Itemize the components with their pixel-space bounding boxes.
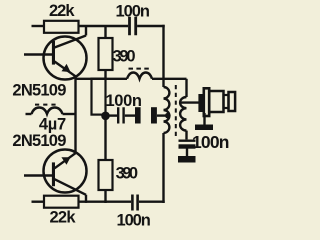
svg-text:2N5109: 2N5109 — [12, 81, 66, 99]
svg-text:22k: 22k — [50, 209, 77, 227]
svg-text:100n: 100n — [106, 92, 143, 110]
svg-text:22k: 22k — [49, 2, 75, 20]
svg-text:100n: 100n — [116, 2, 151, 20]
svg-text:2N5109: 2N5109 — [12, 132, 66, 150]
svg-text:100n: 100n — [192, 132, 230, 152]
svg-text:390: 390 — [113, 47, 136, 65]
svg-text:4µ7: 4µ7 — [39, 116, 66, 134]
svg-text:390: 390 — [116, 164, 139, 182]
svg-text:100n: 100n — [117, 211, 151, 229]
